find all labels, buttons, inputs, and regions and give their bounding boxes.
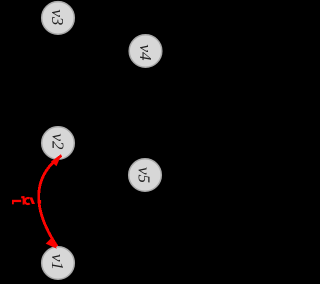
arrowhead into v1 [46, 238, 57, 249]
edge value label (tiny red marks) [12, 196, 41, 204]
wire: red curved edge v1-v2 [39, 156, 62, 247]
svg-text:v3: v3 [48, 9, 67, 25]
svg-text:v4: v4 [136, 44, 155, 61]
node v2 [42, 127, 75, 160]
svg-text:v5: v5 [135, 167, 154, 183]
svg-text:v2: v2 [49, 133, 68, 150]
node v3 [42, 2, 75, 35]
arrowhead into v2 [51, 155, 62, 167]
node v5 [129, 159, 162, 192]
node v4 [129, 35, 162, 68]
node v1 [42, 247, 75, 280]
svg-text:v1: v1 [48, 254, 67, 270]
